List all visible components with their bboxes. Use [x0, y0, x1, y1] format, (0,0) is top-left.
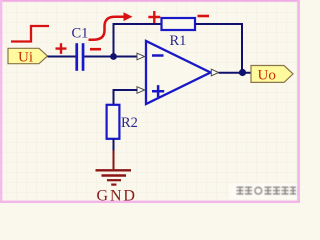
port Ui	[8, 48, 48, 63]
svg-text:Ui: Ui	[18, 50, 33, 66]
svg-text:C1: C1	[72, 26, 89, 42]
wire node up to R1	[114, 24, 162, 57]
port Uo	[251, 66, 293, 83]
wire R1 right to output node	[195, 24, 242, 73]
wire C1 to inverting input	[84, 56, 137, 58]
watermark backdrop	[229, 184, 297, 200]
wire Ui to C1	[48, 56, 77, 58]
svg-text:R1: R1	[170, 33, 187, 49]
wire R2 to ground	[113, 139, 115, 153]
resistor R2	[107, 105, 120, 139]
capacitor C1	[75, 43, 84, 71]
wire output to port	[219, 72, 251, 74]
polarity + at C1 left	[56, 43, 67, 54]
junction node at output	[239, 69, 246, 76]
svg-text:GND: GND	[97, 187, 137, 203]
frame top	[0, 0, 300, 2]
svg-text:R2: R2	[121, 115, 138, 131]
current arrow annotation	[89, 12, 133, 40]
op-amp inverting symbol	[152, 54, 164, 57]
watermark text	[237, 187, 297, 195]
pin arrow output	[211, 69, 218, 76]
frame left	[0, 0, 2, 203]
wire non-inverting input to R2	[114, 90, 138, 105]
frame right	[297, 0, 300, 203]
ground	[96, 151, 132, 185]
resistor R1	[162, 18, 196, 30]
polarity - at C1 right	[90, 48, 101, 51]
junction node at C1 output	[110, 53, 117, 60]
frame bottom	[0, 201, 300, 203]
pin arrow inverting input	[137, 53, 145, 60]
svg-text:Uo: Uo	[258, 68, 276, 84]
input step waveform annotation	[11, 26, 49, 42]
pin arrow non-inverting input	[137, 87, 145, 94]
polarity - at R1 right	[198, 15, 210, 18]
op-amp U1	[146, 41, 211, 104]
op-amp non-inverting symbol	[152, 85, 164, 97]
polarity + at R1 left	[148, 11, 160, 23]
